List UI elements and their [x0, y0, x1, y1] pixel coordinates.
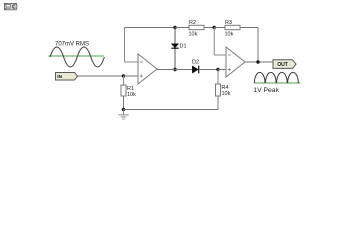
node A: [122, 74, 125, 77]
resistor R2: [189, 20, 205, 38]
op-amp U2: [226, 47, 245, 77]
toolbar icon: [4, 3, 17, 10]
svg-text:10k: 10k: [189, 32, 198, 38]
svg-text:IN: IN: [57, 74, 62, 80]
wire node B to R3: [214, 27, 225, 29]
svg-text:1V Peak: 1V Peak: [253, 87, 279, 94]
svg-text:R2: R2: [189, 20, 196, 26]
wire node A down to R1: [123, 76, 125, 85]
node GND junction: [122, 108, 125, 111]
wire node A to op-amp U1 +in: [124, 75, 139, 77]
wire node C to U2 +in: [218, 69, 226, 71]
node C (D2 cathode / R4 / U2 +in): [216, 68, 219, 71]
node B (R2-R3 junction): [213, 26, 216, 29]
ground: [118, 110, 128, 120]
wire R1 bottom to ground node: [123, 96, 125, 110]
sine wave annotation axis: [48, 55, 104, 57]
resistor R3: [225, 20, 241, 38]
wire D2 cathode to node C: [199, 69, 218, 71]
wire U1 -in feedback left segment: [125, 61, 139, 63]
wire feedback top rail to D1: [125, 27, 176, 29]
wire U1 output to D2 anode: [157, 69, 192, 71]
wire R4 bottom to bottom rail: [124, 96, 219, 110]
diode D2: [192, 59, 199, 73]
wire feedback vertical: [124, 28, 126, 63]
node top of D1: [173, 26, 176, 29]
wire node B down to U2 -in: [213, 28, 215, 56]
node D (feedback joins output): [256, 60, 259, 63]
wire node C down to R4: [217, 70, 219, 85]
svg-text:D1: D1: [180, 44, 187, 50]
wire U2 output to OUT flag: [245, 61, 273, 63]
svg-text:OUT: OUT: [277, 62, 288, 68]
flag IN: [56, 73, 78, 81]
sine wave annotation curve: [50, 47, 104, 67]
node D1 bottom on output rail: [173, 68, 176, 71]
wire R2 to node B: [204, 27, 214, 29]
wire IN to node A: [78, 75, 124, 77]
svg-text:10k: 10k: [225, 32, 234, 38]
rectified wave annotation humps: [254, 72, 298, 83]
svg-text:10k: 10k: [222, 91, 231, 97]
diode D1: [171, 28, 186, 70]
wire top rail D1 to R2: [175, 27, 189, 29]
svg-text:R3: R3: [225, 20, 232, 26]
svg-text:D2: D2: [192, 59, 199, 65]
wire corner down to U2 output rail: [257, 28, 259, 63]
flag OUT: [273, 60, 296, 69]
wire R3 right to corner: [240, 27, 258, 29]
resistor R4: [216, 84, 231, 97]
op-amp U1: [138, 54, 157, 84]
wire into U2 -in: [214, 54, 226, 56]
resistor R1: [121, 85, 136, 98]
rectified wave annotation baseline: [254, 82, 301, 84]
svg-text:10k: 10k: [127, 92, 136, 98]
